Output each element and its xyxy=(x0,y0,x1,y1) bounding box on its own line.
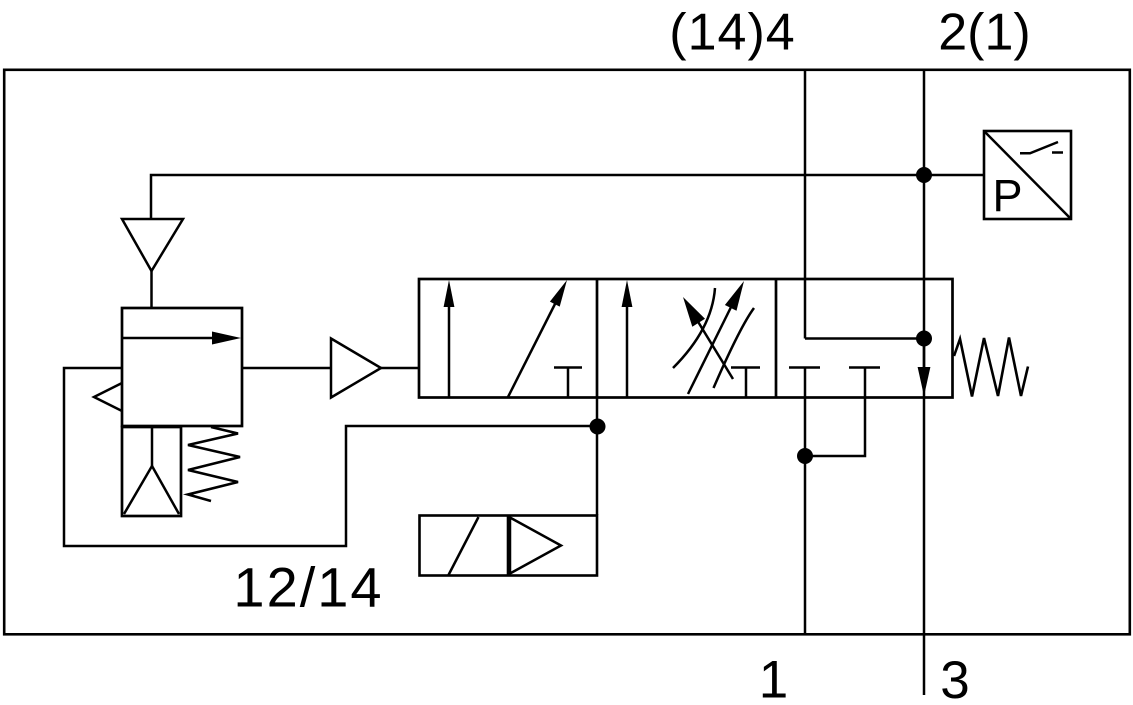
wire regulator loop left and bottom xyxy=(64,368,597,546)
valve arrow up section1 xyxy=(448,303,451,397)
node junction dot 12/14 xyxy=(590,419,606,435)
valve arrow down to port3 xyxy=(923,339,926,370)
main valve V1 body xyxy=(419,279,953,398)
throttle arrow up-left xyxy=(697,320,733,379)
regulator internal flow arrow xyxy=(122,337,218,340)
pilot valve divider xyxy=(507,516,510,576)
node junction dot on port2 line xyxy=(916,167,932,183)
wire pilot line top horizontal to pressure switch xyxy=(151,175,983,219)
regulator left relief arrowhead xyxy=(94,383,122,411)
svg-text:1: 1 xyxy=(759,651,788,701)
pilot valve triangle xyxy=(510,518,561,574)
enclosure border xyxy=(4,70,1130,635)
wire triangle to regulator box xyxy=(150,271,153,308)
valve seat T section3 right xyxy=(849,366,880,369)
svg-text:P: P xyxy=(993,170,1023,221)
pressure switch contact symbol xyxy=(1020,142,1063,153)
throttle arc left xyxy=(673,288,715,368)
pilot valve lever line xyxy=(449,517,479,575)
spring of regulator xyxy=(188,427,240,501)
svg-text:12/14: 12/14 xyxy=(233,556,383,619)
node junction dot inside valve xyxy=(916,331,932,347)
main valve section divider right xyxy=(775,279,778,398)
pressure switch PS1 body xyxy=(984,131,1071,219)
svg-text:2(1): 2(1) xyxy=(938,4,1030,62)
wire port1 branch to second seat xyxy=(805,368,865,457)
valve diagonal arrow section1 xyxy=(508,302,556,397)
valve seat T section1 xyxy=(554,368,582,398)
main valve section divider left xyxy=(596,279,599,398)
valve arrow up section2 xyxy=(626,303,629,397)
wire regulator output to pilot amplifier xyxy=(242,367,331,370)
regulator lower vent box xyxy=(122,427,181,516)
svg-text:(14)4: (14)4 xyxy=(669,4,795,62)
throttle arrow up-right xyxy=(688,299,735,394)
vent box triangle xyxy=(124,466,179,514)
valve seat T section2 xyxy=(731,368,760,398)
wire port 2/3 vertical xyxy=(923,70,926,695)
throttle arc right xyxy=(714,308,755,388)
valve internal elbow port4 to dot xyxy=(805,337,924,340)
wire port1 vertical xyxy=(804,368,807,635)
svg-text:3: 3 xyxy=(940,651,969,700)
valve seat T section3 left xyxy=(789,366,820,369)
pressure switch diagonal xyxy=(984,131,1071,219)
pilot amplifier triangle xyxy=(331,339,381,398)
regulator R1 body xyxy=(122,308,242,426)
valve return spring xyxy=(954,338,1028,397)
pilot valve V2 body xyxy=(420,516,598,576)
wire amplifier to main valve xyxy=(381,367,419,370)
check valve triangle xyxy=(122,219,183,271)
wire port 4 vertical xyxy=(804,70,807,339)
wire valve to pilot valve vertical xyxy=(596,398,599,516)
vent box stem xyxy=(151,427,154,466)
node junction dot port1 branch xyxy=(797,448,813,464)
